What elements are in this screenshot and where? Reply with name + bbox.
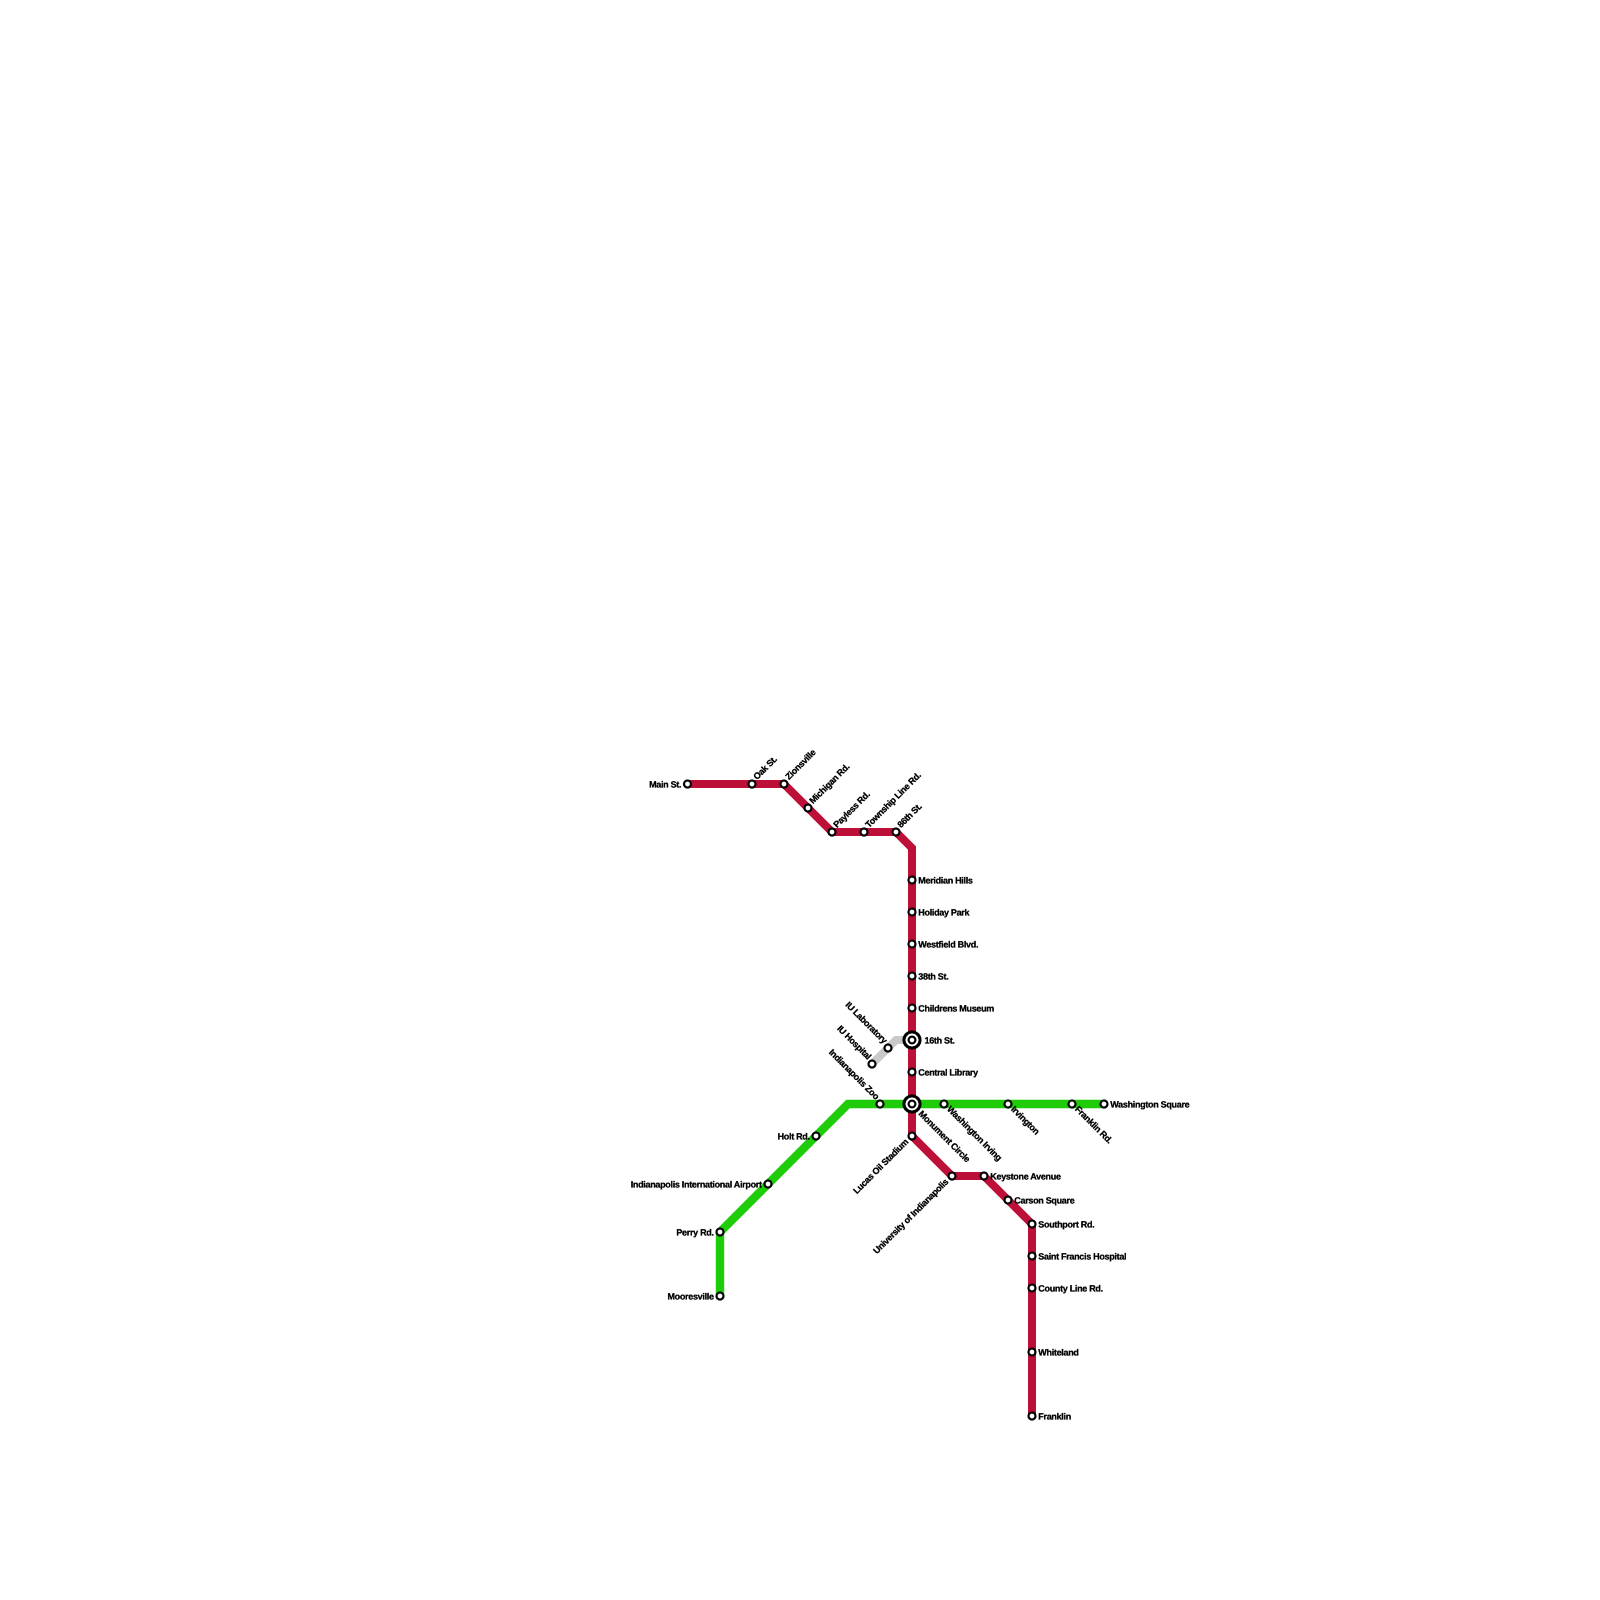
station Washington Irving (941, 1101, 1004, 1163)
svg-text:Franklin: Franklin (1038, 1411, 1071, 1421)
station Meridian Hills (909, 875, 973, 885)
svg-text:Whiteland: Whiteland (1038, 1347, 1078, 1357)
svg-text:Childrens Museum: Childrens Museum (918, 1003, 994, 1013)
svg-text:Indianapolis International Air: Indianapolis International Airport (631, 1179, 762, 1189)
station Carson Square (1005, 1195, 1075, 1205)
svg-text:Keystone Avenue: Keystone Avenue (990, 1171, 1061, 1181)
svg-text:Holiday Park: Holiday Park (918, 907, 970, 917)
station Holiday Park (909, 907, 971, 917)
interchange station Monument Circle (904, 1096, 972, 1164)
svg-text:Perry Rd.: Perry Rd. (676, 1227, 713, 1237)
svg-text:Carson Square: Carson Square (1014, 1195, 1074, 1205)
station Saint Francis Hospital (1029, 1251, 1127, 1261)
station IU Hospital (835, 1023, 875, 1067)
svg-text:Saint Francis Hospital: Saint Francis Hospital (1038, 1251, 1126, 1261)
svg-text:38th St.: 38th St. (918, 971, 948, 981)
svg-text:Meridian Hills: Meridian Hills (918, 875, 973, 885)
station University of Indianapolis (871, 1173, 955, 1256)
station Indianapolis International Airport (631, 1179, 772, 1189)
station 86th St. (893, 801, 924, 835)
station Central Library (909, 1067, 979, 1077)
station Westfield Blvd. (909, 939, 979, 949)
svg-text:Westfield Blvd.: Westfield Blvd. (918, 939, 978, 949)
station Childrens Museum (909, 1003, 995, 1013)
interchange station 16th St. (904, 1032, 955, 1048)
station Oak St. (749, 754, 779, 787)
station Mooresville (667, 1291, 723, 1301)
svg-text:Southport Rd.: Southport Rd. (1038, 1219, 1094, 1229)
green line (720, 1104, 1104, 1296)
station Township Line Rd. (861, 770, 923, 835)
svg-text:Main St.: Main St. (649, 779, 681, 789)
station Payless Rd. (829, 789, 872, 835)
station Irvington (1005, 1101, 1042, 1137)
svg-text:Central Library: Central Library (918, 1067, 978, 1077)
station Keystone Avenue (981, 1171, 1061, 1181)
svg-text:Washington Square: Washington Square (1110, 1099, 1189, 1109)
station Franklin Rd. (1069, 1101, 1115, 1146)
station 38th St. (909, 971, 949, 981)
svg-text:Mooresville: Mooresville (667, 1291, 714, 1301)
station Main St. (649, 779, 691, 789)
station County Line Rd. (1029, 1283, 1103, 1293)
station Lucas Oil Stadium (851, 1133, 915, 1196)
station Michigan Rd. (805, 762, 852, 812)
station Perry Rd. (676, 1227, 723, 1237)
station Franklin (1029, 1411, 1071, 1421)
station Southport Rd. (1029, 1219, 1095, 1229)
station IU Laboratory (843, 1000, 891, 1052)
station Holt Rd. (778, 1131, 820, 1141)
svg-text:County Line Rd.: County Line Rd. (1038, 1283, 1103, 1293)
svg-text:Holt Rd.: Holt Rd. (778, 1131, 810, 1141)
station Whiteland (1029, 1347, 1079, 1357)
station Zionsville (781, 747, 818, 787)
red line (688, 784, 1033, 1416)
gray line (IU branch) (872, 1040, 912, 1064)
station Washington Square (1101, 1099, 1190, 1109)
svg-text:16th St.: 16th St. (925, 1035, 955, 1045)
station Indianapolis Zoo (827, 1047, 884, 1107)
